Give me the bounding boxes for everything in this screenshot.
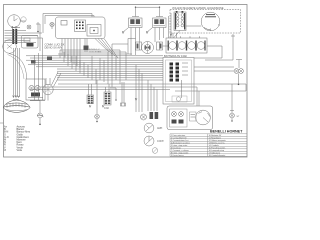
svg-text:BENELLI HORNET: BENELLI HORNET	[210, 130, 243, 134]
colour code legend	[4, 126, 31, 152]
dashed box caption	[172, 7, 224, 10]
battery wires right	[194, 46, 233, 60]
svg-text:18 Contachilometri: 18 Contachilometri	[209, 154, 226, 157]
wires through shell	[35, 51, 43, 100]
headlamp shell box	[26, 79, 45, 100]
svg-text:Viola: Viola	[17, 149, 23, 152]
flywheel F1	[186, 12, 220, 31]
wire from cluster to left	[40, 14, 94, 52]
clock A2	[144, 136, 165, 146]
key switch stem	[36, 22, 40, 32]
svg-text:CN2: CN2	[104, 107, 109, 110]
speedometer S1	[8, 15, 26, 28]
speedo terminals	[11, 26, 20, 29]
stamp circle	[152, 148, 158, 154]
battery label	[164, 54, 188, 58]
parts table	[170, 134, 247, 157]
main harness bus	[26, 50, 163, 80]
headlamp lens	[3, 99, 30, 112]
rear harness drops	[135, 65, 157, 112]
mesh verticals	[60, 50, 126, 87]
regulator box RG1	[163, 58, 194, 105]
brake switch stem	[30, 101, 44, 126]
nacelle arc	[9, 54, 27, 80]
twin tail bulbs	[234, 60, 243, 86]
generator coil G1	[174, 11, 186, 31]
svg-text:AMP.: AMP.	[157, 127, 163, 130]
wire bundle to headlamp	[14, 48, 20, 97]
tail lens	[196, 110, 211, 125]
magneto drops	[169, 13, 236, 60]
svg-text:CONT.: CONT.	[157, 140, 165, 143]
flasher unit cluster	[112, 39, 168, 56]
trip dial S2	[21, 17, 26, 22]
connector block C2	[104, 82, 126, 110]
terminal block TB1	[5, 29, 43, 44]
margin tick	[0, 122, 4, 124]
regulator outputs	[194, 67, 234, 71]
rear junction cluster	[141, 112, 159, 120]
magneto dashed box	[170, 10, 241, 34]
battery B1	[166, 36, 207, 53]
dip switch box	[22, 36, 39, 49]
stop bulb	[230, 84, 240, 122]
pilot lamp P2	[50, 22, 54, 29]
pilot bulb stem	[89, 80, 104, 122]
border frame	[4, 5, 248, 158]
label text block A	[45, 43, 65, 50]
pilot bulb L1	[27, 25, 31, 29]
bus long lower wires	[30, 57, 246, 107]
ignition coil T1	[122, 7, 160, 56]
tail feed	[196, 87, 198, 106]
ignition coil T2	[146, 7, 166, 42]
cluster drop wires	[62, 39, 118, 69]
ammeter A1	[144, 123, 163, 133]
svg-text:VOLANO MAGNETE ALTERN. ACCENSI: VOLANO MAGNETE ALTERN. ACCENSIONE	[172, 7, 224, 10]
bundle arrowheads	[13, 96, 20, 98]
ignition switch SW1	[30, 72, 61, 101]
horn H1	[3, 40, 17, 54]
connector block C1	[87, 84, 94, 104]
handlebar switch cluster	[56, 17, 106, 39]
svg-text:9 Devio frecce: 9 Devio frecce	[171, 155, 185, 157]
tail lamp assembly	[167, 106, 213, 130]
svg-text:DEVIO SX AVV.: DEVIO SX AVV.	[45, 46, 64, 50]
